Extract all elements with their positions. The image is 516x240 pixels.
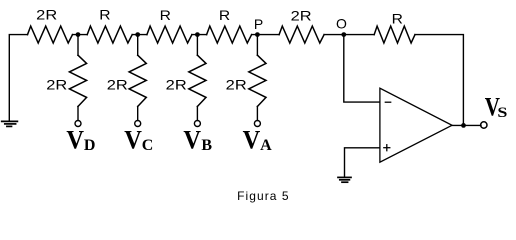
node output dot xyxy=(461,123,466,128)
node dot 1 xyxy=(76,32,81,37)
svg-text:O: O xyxy=(336,16,347,32)
svg-text:P: P xyxy=(254,16,263,32)
svg-text:S: S xyxy=(497,105,507,121)
wire node P to 2R xyxy=(252,34,280,36)
resistor 2R vertical 4 xyxy=(249,35,266,121)
node dot 3 xyxy=(195,32,200,37)
terminal VD circle xyxy=(75,121,81,127)
wire xyxy=(132,34,147,36)
terminal VB circle xyxy=(194,121,200,127)
svg-text:V: V xyxy=(243,126,261,155)
resistor 2R vertical 2 xyxy=(129,35,146,121)
resistor 2R vertical 1 xyxy=(69,35,86,121)
svg-text:R: R xyxy=(392,11,403,27)
svg-text:V: V xyxy=(124,126,142,155)
node O dot xyxy=(341,32,346,37)
svg-text:R: R xyxy=(219,7,230,23)
svg-text:2R: 2R xyxy=(36,7,57,23)
op-amp U1 triangle xyxy=(380,88,452,162)
svg-text:2R: 2R xyxy=(226,76,247,92)
svg-text:2R: 2R xyxy=(166,76,187,92)
node dot 2 xyxy=(135,32,140,37)
wire node O to feedback R xyxy=(324,34,374,36)
svg-text:C: C xyxy=(142,137,154,154)
terminal VA circle xyxy=(254,121,260,127)
svg-text:V: V xyxy=(66,126,84,155)
resistor R (second horizontal) xyxy=(87,26,132,43)
svg-text:2R: 2R xyxy=(107,76,128,92)
svg-text:R: R xyxy=(160,7,171,23)
wire left corner to R1 xyxy=(9,35,27,122)
terminal VS circle xyxy=(481,122,487,128)
wire feedback to output xyxy=(415,35,463,126)
op-amp plus sign xyxy=(384,145,390,151)
wire op-amp non-inverting input to ground xyxy=(345,148,380,177)
svg-text:V: V xyxy=(183,126,201,155)
svg-text:Figura 5: Figura 5 xyxy=(237,189,289,203)
resistor R (feedback) xyxy=(374,26,415,43)
svg-text:A: A xyxy=(260,137,272,154)
wire xyxy=(192,34,207,36)
svg-text:D: D xyxy=(84,137,96,154)
node P dot xyxy=(255,32,260,37)
wire node O to op-amp inverting input xyxy=(344,35,380,103)
op-amp minus sign xyxy=(385,101,390,103)
svg-text:2R: 2R xyxy=(291,7,312,23)
resistor R (fourth horizontal) xyxy=(207,26,252,43)
ground xyxy=(2,121,18,126)
svg-text:2R: 2R xyxy=(46,76,67,92)
wire xyxy=(73,34,88,36)
ground (op-amp) xyxy=(338,177,351,182)
svg-text:R: R xyxy=(99,7,110,23)
resistor 2R (fifth horizontal) xyxy=(279,26,324,43)
terminal VC circle xyxy=(135,121,141,127)
svg-text:B: B xyxy=(201,137,212,154)
resistor R (third horizontal) xyxy=(147,26,192,43)
wire op-amp output xyxy=(452,124,481,126)
resistor 2R (first horizontal) xyxy=(28,26,73,43)
resistor 2R vertical 3 xyxy=(189,35,206,121)
